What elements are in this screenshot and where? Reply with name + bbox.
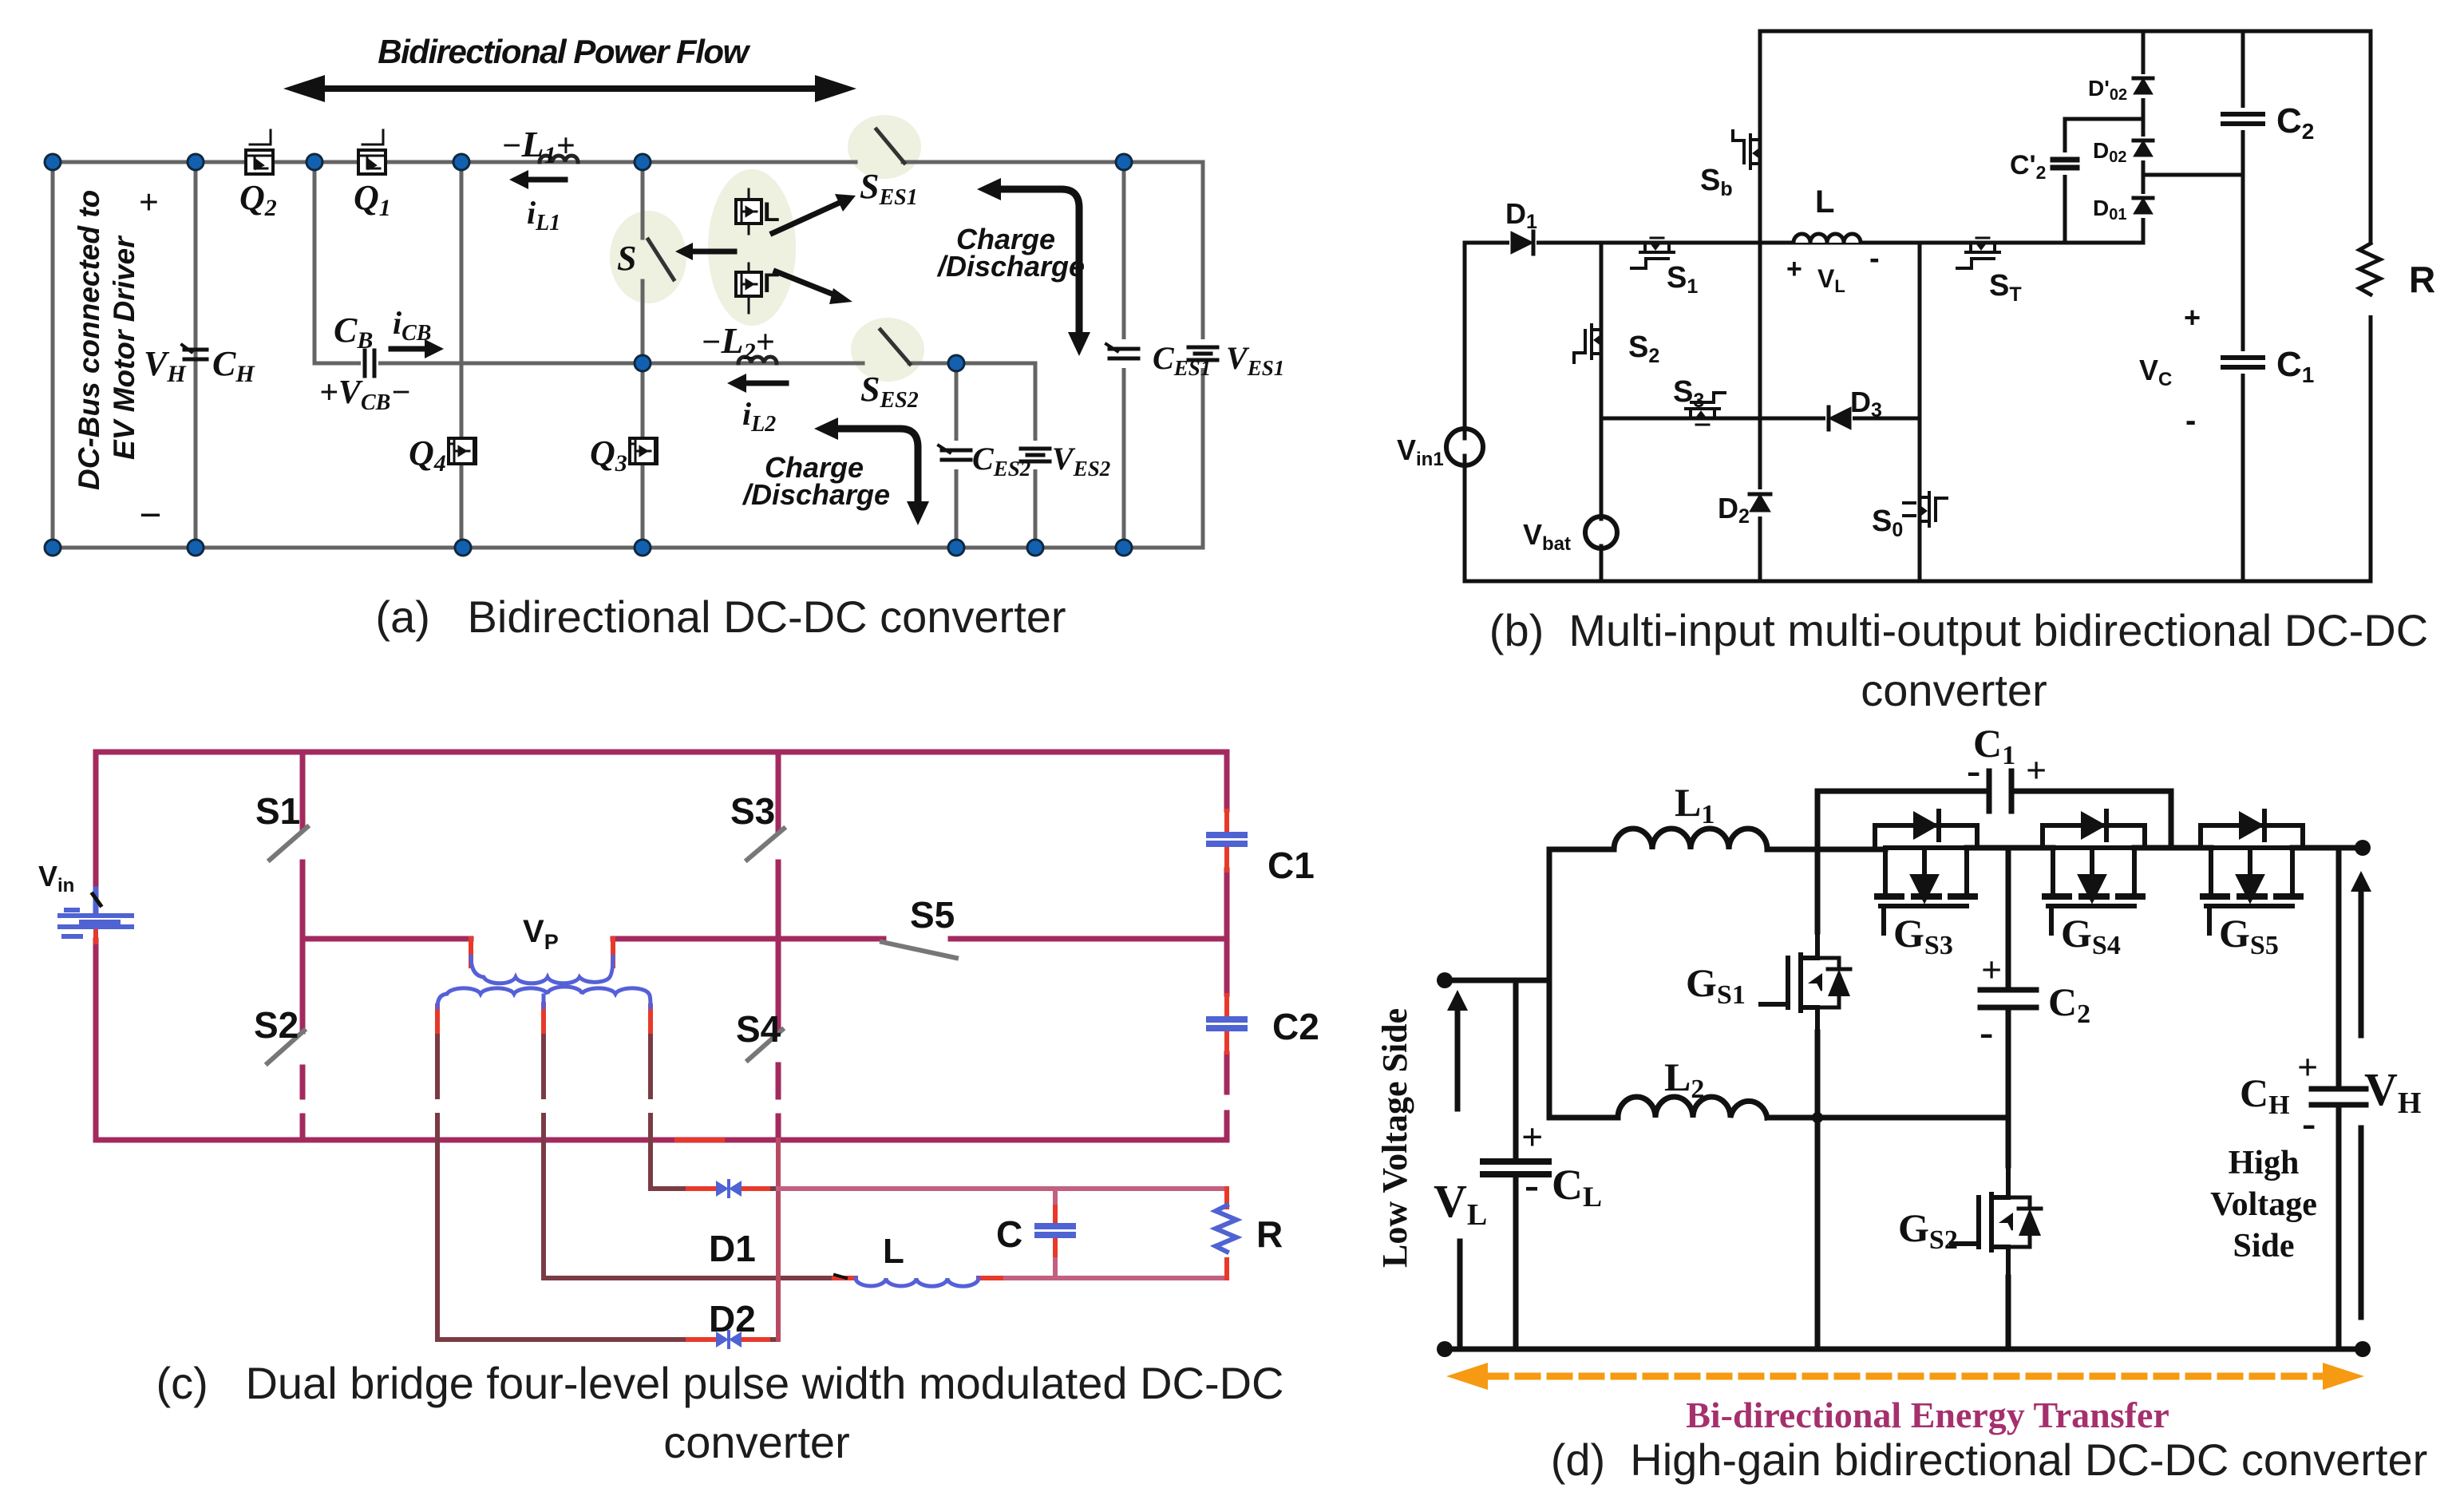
wire: S2 upper stub [300, 939, 306, 1031]
wire: left edge vertical [51, 162, 55, 548]
wire: secondary left leg [437, 1030, 715, 1340]
svg-text:L: L [883, 1232, 904, 1271]
wire: S3 lower stub [776, 862, 781, 939]
svg-text:−: − [138, 493, 162, 537]
wire: S1 lower stub to mid rail [300, 862, 306, 939]
capacitor CL plates [1483, 1162, 1548, 1174]
svg-text:-: - [1525, 1161, 1539, 1209]
red accents [96, 811, 1227, 1340]
wire: bottom bridge rail [96, 1138, 1227, 1143]
wire: Q1-Q2 junction drop to CB [314, 162, 361, 363]
wire: S0 vertical [1918, 243, 1922, 581]
capacitor CH [182, 345, 207, 359]
bent arrow charge1 [998, 189, 1079, 335]
svg-text:R: R [1256, 1213, 1283, 1255]
MOSFET Sb (vertical, gate left) [1733, 131, 1760, 168]
arrow pair to S [688, 249, 734, 255]
battery VES1 [1187, 339, 1219, 368]
svg-text:-: - [1869, 242, 1880, 275]
wire: LV node to left vertical [1445, 978, 1549, 983]
diode D01 [2130, 194, 2156, 218]
wire: GS2 bottom drop [2006, 1277, 2011, 1349]
transformer primary winding [471, 956, 613, 983]
orange dashed bidirectional arrow [1486, 1373, 2324, 1380]
switch S2 blade [267, 1031, 304, 1063]
MOSFET S1 (horizontal) [1631, 238, 1674, 268]
capacitor CB [361, 350, 378, 376]
capacitor C1 plates [1989, 771, 2011, 811]
wire: bottom rail [1465, 580, 2371, 584]
svg-text:High: High [2229, 1145, 2300, 1181]
wire: mid rail left of transformer [303, 936, 471, 942]
wire: S / Q3 branch [641, 162, 645, 548]
capacitor C2 [2222, 108, 2264, 130]
wire: left vertical with Vin1 gap [1463, 243, 1467, 581]
svg-text:L: L [1815, 184, 1834, 220]
svg-text:D1: D1 [709, 1228, 756, 1269]
svg-text:S3: S3 [730, 790, 775, 832]
svg-text:(a) Bidirectional DC-DC conv: (a) Bidirectional DC-DC converter [375, 592, 1066, 642]
MOSFET Q2 [246, 130, 273, 174]
arrow iCB [391, 346, 431, 352]
wire: right vertical with CH [2336, 848, 2342, 1349]
wire: D2 vertical lower [1758, 243, 1762, 581]
svg-text:S5: S5 [910, 894, 955, 936]
wire: L2 rail [1549, 1115, 2008, 1121]
wire: CES1 branch [1122, 162, 1126, 548]
inductor L1 [1614, 829, 1767, 849]
MOSFET GS4 (horizontal with diode loop) [2043, 811, 2145, 933]
capacitor C2 plates [1980, 990, 2036, 1007]
wire: Sb vertical upper [1758, 31, 1762, 243]
switch S3 blade [747, 829, 784, 860]
svg-text:C2: C2 [1272, 1006, 1319, 1047]
wire: C1 right link [2011, 791, 2171, 848]
arrow pair to SES1 [773, 201, 843, 233]
wire: VES2 branch [1034, 363, 1038, 548]
diode D2 [1747, 489, 1773, 516]
wire: CB mid rail [378, 362, 1035, 366]
svg-text:+: + [2026, 750, 2047, 790]
wire: S4 lower stub [776, 1065, 781, 1097]
node dot HV top [2355, 840, 2371, 856]
wire: GS1 source drop [1815, 1032, 1821, 1349]
capacitor C'2 [2052, 152, 2078, 175]
MOSFET ST (horizontal) [1957, 238, 1999, 268]
wire: S1 upper stub [300, 752, 306, 829]
battery VES2 [1019, 441, 1051, 469]
svg-text:S4: S4 [736, 1008, 781, 1050]
svg-text:R: R [2409, 259, 2435, 300]
wire: CL branch [1513, 980, 1519, 1349]
svg-text:/Discharge: /Discharge [742, 478, 890, 511]
wire: R branch vertical [1224, 1189, 1229, 1278]
svg-text:Voltage: Voltage [2210, 1186, 2317, 1223]
diode D1 [1509, 230, 1537, 255]
svg-text:C: C [996, 1213, 1022, 1255]
highlight ellipse around switch S [610, 211, 686, 303]
header double arrow [310, 85, 830, 92]
transformer secondary winding [437, 987, 651, 1007]
wire: GS1 drain riser [1815, 791, 1821, 932]
MOSFET Q4 [449, 438, 476, 464]
bent arrow charge2 [835, 429, 918, 505]
wire: top rail [1760, 30, 2371, 34]
node dot LV bottom [1437, 1341, 1453, 1357]
svg-text:−L2+: −L2+ [701, 320, 775, 365]
wire: right edge VES1 [1201, 162, 1205, 548]
wire: CES2 branch [955, 363, 959, 548]
wire: left vertical lower [93, 940, 99, 1140]
wire: R vertical [2369, 31, 2373, 581]
diode D2 (blue bowtie) [716, 1332, 742, 1348]
wire: L1 rail [1549, 847, 1885, 853]
wire: D1 to S-leg [742, 1186, 778, 1191]
MOSFET Q3 [630, 438, 657, 464]
wire: GS3-GS4 link [1967, 845, 2053, 851]
inductor L (blue wavy) [856, 1278, 979, 1286]
svg-text:Bidirectional Power Flow: Bidirectional Power Flow [378, 33, 750, 70]
wire: C1 left link [1817, 789, 1989, 794]
svg-text:(c) Dual bridge four-level p: (c) Dual bridge four-level pulse width m… [156, 1358, 1283, 1408]
switch S5 blade [882, 942, 956, 958]
capacitor CH plates [2312, 1089, 2366, 1105]
ES MOSFET upper (with L) [736, 189, 780, 234]
switch S4 blade [748, 1030, 782, 1060]
svg-text:Low Voltage Side: Low Voltage Side [1375, 1008, 1414, 1268]
source Vbat [1585, 516, 1617, 548]
wire: C branch vertical [1053, 1189, 1058, 1278]
MOSFET Q1 [358, 130, 386, 174]
svg-text:(b) Multi-input multi-output: (b) Multi-input multi-output bidirection… [1489, 605, 2428, 655]
capacitor CES2 [939, 441, 972, 469]
wire: C1C2 vertical [1224, 752, 1230, 1140]
svg-text:+: + [1981, 949, 2002, 990]
svg-text:+: + [1786, 254, 1802, 284]
MOSFET GS2 (vertical) [1952, 1165, 2041, 1277]
node dot HV bottom [2355, 1341, 2371, 1357]
svg-text:S: S [617, 239, 636, 278]
VL arrow [1455, 1006, 1461, 1109]
capacitor C1 [2222, 351, 2264, 374]
diode D02 [2130, 137, 2156, 160]
diode D3 [1825, 406, 1853, 431]
wire: mid rail right of transformer to S5 [613, 936, 884, 942]
svg-text:DC-Bus connected to: DC-Bus connected to [73, 190, 105, 490]
junction dot L2 rail / GS1 source [1812, 1112, 1823, 1123]
node dots [45, 154, 1132, 556]
wire: load loop top [778, 1186, 1227, 1191]
wire: S4 upper stub [776, 939, 781, 1031]
svg-text:+: + [2184, 301, 2201, 334]
svg-text:+: + [1521, 1116, 1543, 1158]
wire: lower bridge leg vertical [776, 1140, 781, 1340]
battery Vin [60, 889, 132, 936]
svg-text:−L1+: −L1+ [501, 124, 575, 168]
source Vin1 [1446, 429, 1483, 465]
highlight ellipse around switch SES1 [848, 115, 921, 179]
wire: GS4-GS5 link [2134, 845, 2211, 851]
svg-text:S2: S2 [254, 1004, 299, 1046]
wire: D02-C2 link [2143, 173, 2243, 177]
wire: output diode string vertical [2142, 31, 2146, 243]
capacitor C2 (blue) [1209, 1019, 1244, 1028]
wire: S2 bottom link [300, 1116, 306, 1140]
MOSFET GS3 (horizontal with diode loop) [1875, 811, 1977, 933]
wire: bottom rail [1445, 1347, 2366, 1352]
MOSFET S3 (horizontal) [1686, 393, 1725, 425]
wire: CH branch [194, 162, 198, 548]
wire: secondary right leg [651, 1030, 715, 1189]
svg-text:-: - [2185, 403, 2196, 438]
svg-text:Bi-directional Energy Transfer: Bi-directional Energy Transfer [1686, 1395, 2169, 1435]
inductor L1 [540, 156, 578, 162]
wire: D2 to S-leg [742, 1337, 778, 1342]
wire: S5 right rail to C1 branch [951, 936, 1227, 942]
wire: GS5 to VH node [2292, 845, 2363, 851]
wire: load loop bottom [999, 1276, 1227, 1280]
inductor L [1794, 234, 1861, 243]
wire: Vbat branch vertical [1600, 243, 1604, 581]
wire: top rail [53, 160, 1203, 164]
inductor L2 [1618, 1097, 1767, 1118]
arrow iL2 [741, 381, 786, 386]
svg-text:+: + [2297, 1047, 2318, 1087]
svg-text:/Discharge: /Discharge [936, 250, 1085, 283]
capacitor C1 (blue) [1209, 835, 1244, 844]
svg-text:L: L [763, 197, 780, 228]
wire: S4 bottom link [776, 1116, 781, 1140]
MOSFET S0 (vertical, gate left) [1904, 493, 1947, 526]
wire: S2 lower stub [300, 1067, 306, 1097]
node dot LV top [1437, 972, 1453, 988]
svg-text:+: + [138, 183, 158, 222]
wire: S3 upper stub [776, 752, 781, 831]
wire: left vertical upper [93, 752, 99, 891]
svg-text:converter: converter [1861, 665, 2047, 715]
switch S1 blade [270, 827, 307, 860]
wire: secondary center leg [544, 1030, 834, 1278]
MOSFET GS1 (vertical) [1761, 932, 1850, 1032]
resistor R [2356, 243, 2385, 315]
wire: C'2 loop vertical and top [2065, 119, 2143, 243]
capacitor CES1 [1106, 339, 1140, 368]
MOSFET S2 (vertical, gate left) [1574, 325, 1601, 362]
wire: main mid rail [1465, 241, 2143, 245]
wire: S3-D3 horizontal [1601, 417, 1920, 421]
switch SES1 blade [876, 129, 904, 163]
arrow iL1 [523, 177, 565, 183]
ES MOSFET lower (with gamma) [736, 263, 779, 313]
svg-text:-: - [2302, 1101, 2316, 1146]
diode D1 (blue bowtie) [716, 1181, 742, 1197]
inductor L2 [738, 357, 777, 363]
svg-text:-: - [1980, 1010, 1993, 1055]
svg-text:S1: S1 [255, 790, 300, 832]
VH arrow [2359, 887, 2364, 1035]
capacitor C (blue) [1038, 1226, 1073, 1235]
resistor R (blue) [1216, 1205, 1236, 1252]
svg-text:C1: C1 [1268, 845, 1315, 886]
highlight ellipse around ES MOSFET pair [708, 169, 796, 326]
switch S blade [648, 239, 674, 279]
switch SES2 blade [880, 330, 910, 364]
highlight ellipse around switch SES2 [851, 318, 924, 382]
svg-text:converter: converter [663, 1417, 849, 1467]
diode D'02 [2130, 74, 2156, 98]
svg-text:EV Motor Driver: EV Motor Driver [108, 235, 140, 460]
wire: C2 branch [2006, 848, 2011, 1165]
svg-text:Side: Side [2233, 1228, 2294, 1264]
svg-text:(d) High-gain bidirectional D: (d) High-gain bidirectional DC-DC conver… [1551, 1435, 2428, 1485]
wire: top rail [96, 750, 1227, 755]
wire: Q4 branch [460, 162, 464, 548]
arrow pair to SES2 [776, 271, 840, 297]
svg-text:-: - [1967, 748, 1980, 793]
MOSFET GS5 (horizontal with diode loop) [2201, 811, 2303, 933]
wire: C2-C1 vertical [2241, 31, 2245, 581]
wire: bottom rail [53, 546, 1203, 550]
wire: left vertical between L1 and L2 [1547, 849, 1552, 1118]
svg-text:D2: D2 [709, 1298, 756, 1340]
